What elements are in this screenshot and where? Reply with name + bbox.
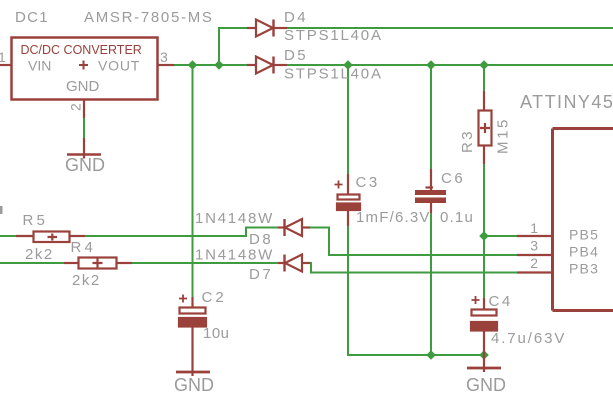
svg-text:2: 2 (530, 255, 538, 271)
svg-text:GND: GND (174, 375, 214, 395)
svg-text:10u: 10u (203, 325, 230, 342)
svg-text:1: 1 (530, 220, 538, 236)
svg-text:C2: C2 (202, 289, 227, 306)
svg-text:C4: C4 (489, 293, 513, 310)
svg-text:R3: R3 (459, 129, 476, 153)
svg-text:1N4148W: 1N4148W (195, 247, 274, 264)
svg-text:2: 2 (68, 103, 84, 111)
svg-text:PB4: PB4 (569, 244, 599, 260)
svg-text:1mF/6.3V: 1mF/6.3V (356, 209, 431, 226)
svg-text:PB5: PB5 (569, 227, 599, 243)
svg-text:D7: D7 (249, 266, 273, 283)
svg-text:DC/DC CONVERTER: DC/DC CONVERTER (21, 43, 142, 57)
svg-text:PB3: PB3 (569, 261, 599, 277)
svg-text:M15: M15 (495, 117, 512, 154)
svg-text:0.1u: 0.1u (440, 209, 474, 226)
svg-text:D4: D4 (284, 9, 308, 26)
svg-text:VOUT: VOUT (98, 58, 140, 74)
svg-text:3: 3 (160, 49, 168, 65)
svg-text:D5: D5 (284, 47, 308, 64)
svg-text:GND: GND (66, 78, 100, 95)
svg-text:STPS1L40A: STPS1L40A (284, 66, 383, 83)
svg-text:GND: GND (65, 155, 105, 175)
svg-text:STPS1L40A: STPS1L40A (284, 27, 383, 44)
svg-text:3: 3 (530, 238, 538, 254)
svg-text:4.7u/63V: 4.7u/63V (491, 330, 566, 347)
svg-text:R5: R5 (23, 212, 49, 229)
svg-text:C3: C3 (356, 174, 380, 191)
svg-text:D8: D8 (249, 231, 273, 248)
svg-text:DC1: DC1 (15, 9, 49, 26)
svg-text:2k2: 2k2 (25, 246, 54, 263)
svg-text:1: 1 (0, 49, 6, 65)
svg-text:GND: GND (466, 375, 506, 395)
svg-text:2k2: 2k2 (72, 272, 101, 289)
svg-text:ATTINY45: ATTINY45 (520, 92, 613, 112)
svg-text:1N4148W: 1N4148W (195, 210, 274, 227)
svg-text:AMSR-7805-MS: AMSR-7805-MS (84, 9, 214, 26)
svg-text:C6: C6 (441, 170, 465, 187)
svg-text:VIN: VIN (28, 58, 51, 74)
svg-text:R4: R4 (71, 239, 97, 256)
